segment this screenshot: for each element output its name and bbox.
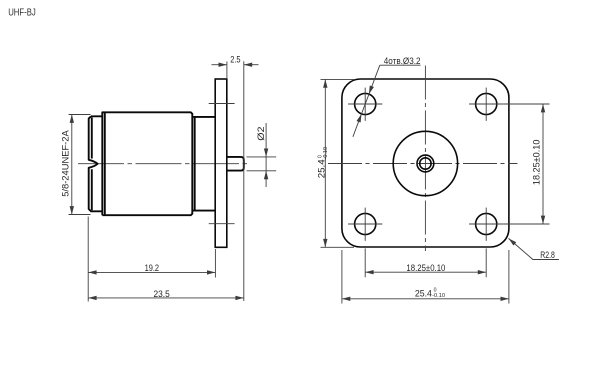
flange hole mark upper bbox=[209, 103, 235, 105]
svg-text:25.4: 25.4 bbox=[317, 159, 327, 178]
dimension 18.25 bottom bbox=[365, 248, 486, 277]
flange hole mark lower bbox=[209, 223, 235, 225]
dimension 18.25 right bbox=[503, 104, 549, 224]
dimension 25.4 bottom bbox=[342, 250, 509, 304]
svg-text:19.2: 19.2 bbox=[145, 263, 159, 273]
svg-text:-0.10: -0.10 bbox=[323, 147, 329, 160]
front view socket outer circle bbox=[417, 155, 434, 172]
dimension 25.4 left bbox=[317, 79, 355, 247]
dimension 4otv Ø3.2 leader bbox=[353, 56, 421, 137]
front view socket bore circle bbox=[420, 158, 431, 169]
dimension 5/8-24UNEF-2A bbox=[61, 115, 91, 215]
dimension 2.5 bbox=[212, 55, 259, 301]
dimension 19.2 bbox=[88, 217, 215, 302]
svg-text:18.25±0.10: 18.25±0.10 bbox=[406, 263, 445, 273]
mounting hole top-right bbox=[469, 88, 503, 121]
side view body bbox=[102, 112, 192, 215]
mounting hole bottom-left bbox=[348, 208, 382, 241]
side view mounting flange bbox=[215, 79, 227, 247]
svg-text:5/8-24UNEF-2A: 5/8-24UNEF-2A bbox=[61, 129, 71, 196]
svg-text:23.5: 23.5 bbox=[154, 289, 170, 299]
svg-text:R2.8: R2.8 bbox=[540, 250, 555, 260]
svg-text:Ø2: Ø2 bbox=[256, 127, 266, 141]
svg-text:4отв.Ø3.2: 4отв.Ø3.2 bbox=[384, 56, 421, 66]
mounting hole top-left bbox=[348, 88, 382, 121]
front view insulator circle bbox=[393, 131, 457, 195]
svg-text:UHF-BJ: UHF-BJ bbox=[8, 8, 36, 19]
svg-text:18.25±0.10: 18.25±0.10 bbox=[532, 140, 542, 186]
mounting hole bottom-right bbox=[469, 208, 503, 241]
side view center pin bbox=[227, 157, 244, 171]
front view horizontal centerline bbox=[328, 163, 518, 165]
dimension R2.8 leader bbox=[507, 237, 559, 260]
svg-text:-0.10: -0.10 bbox=[432, 293, 445, 299]
thread chamfer line bbox=[91, 118, 93, 211]
dimension Ø2 bbox=[247, 123, 277, 187]
body right chamfer line bbox=[194, 117, 196, 211]
front view vertical centerline bbox=[424, 66, 426, 252]
side view centerline bbox=[78, 163, 251, 165]
front view flange plate bbox=[342, 79, 509, 247]
svg-text:2.5: 2.5 bbox=[230, 55, 240, 65]
side view thread section 5/8-24UNEF bbox=[89, 116, 103, 211]
body left chamfer line bbox=[104, 112, 106, 215]
side view neck section bbox=[192, 117, 215, 211]
dimension 23.5 bbox=[88, 289, 244, 300]
svg-text:25.4: 25.4 bbox=[415, 289, 432, 299]
